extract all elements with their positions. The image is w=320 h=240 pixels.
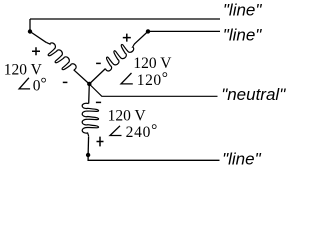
node A (28, 29, 32, 33)
svg-text:120 V: 120 V (4, 61, 43, 78)
minus sign winding2 (96, 62, 101, 64)
wire (30, 18, 220, 20)
minus sign winding1 (63, 81, 68, 83)
wire (148, 30, 220, 32)
svg-text:"line": "line" (223, 25, 262, 44)
svg-text:240°: 240° (126, 122, 158, 141)
angle symbol w1 (19, 78, 30, 89)
plus sign winding1 (32, 47, 40, 55)
angle symbol w2 (121, 73, 133, 84)
svg-text:"line": "line" (222, 150, 261, 169)
wire (135, 31, 148, 43)
plus sign winding3 (97, 137, 104, 147)
node C (86, 153, 90, 157)
wire neutral (89, 84, 217, 96)
inductor winding 2 (105, 44, 134, 71)
wire (29, 19, 31, 32)
inductor winding 3 (82, 103, 98, 136)
wire (89, 69, 105, 84)
wire (88, 155, 219, 160)
minus sign winding3 (96, 101, 101, 103)
wire (30, 32, 46, 43)
svg-text:"line": "line" (223, 0, 262, 19)
plus sign winding2 (123, 34, 131, 42)
inductor winding 1 (46, 42, 76, 70)
wire (74, 70, 90, 84)
node N center (87, 82, 91, 86)
svg-text:0°: 0° (33, 76, 47, 95)
svg-text:120 V: 120 V (108, 108, 147, 125)
svg-text:"neutral": "neutral" (221, 85, 286, 104)
wire (87, 136, 90, 155)
angle symbol w3 (110, 126, 122, 136)
wire (88, 84, 91, 104)
svg-text:120°: 120° (137, 70, 169, 89)
node B (146, 29, 150, 33)
